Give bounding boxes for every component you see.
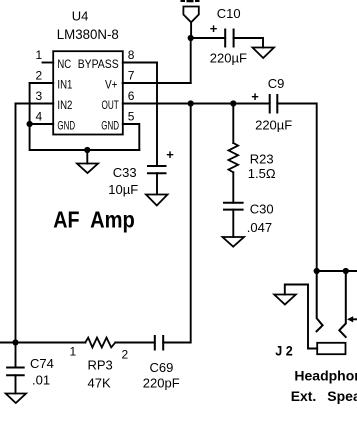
svg-text:220µF: 220µF: [210, 51, 247, 66]
capacitor C74: [7, 368, 24, 376]
node pin4 junction: [27, 121, 33, 127]
node OUT feedback junction: [188, 100, 194, 106]
pin 8 stub: [123, 62, 157, 64]
ground (C74): [6, 394, 26, 404]
wire R23 to C30: [232, 172, 234, 203]
svg-text:6: 6: [128, 89, 135, 103]
wire jack top rail: [317, 270, 357, 272]
svg-text:C33: C33: [113, 165, 137, 180]
capacitor C33: [148, 166, 166, 173]
svg-text:47K: 47K: [88, 376, 111, 391]
wire gnd stub: [86, 150, 88, 164]
svg-text:3: 3: [36, 89, 43, 103]
svg-text:GND: GND: [57, 118, 75, 132]
svg-text:1.5Ω: 1.5Ω: [248, 166, 276, 181]
wire C74 to ground: [15, 375, 17, 393]
svg-text:220µF: 220µF: [255, 117, 292, 132]
wire IN2 feedback rail: [15, 104, 17, 343]
svg-text:10µF: 10µF: [108, 182, 138, 197]
resistor RP3: [85, 338, 115, 348]
svg-text:.047: .047: [247, 220, 272, 235]
svg-text:C30: C30: [250, 202, 274, 217]
svg-text:Speaker: Speaker: [327, 388, 357, 404]
svg-text:+: +: [251, 89, 259, 104]
svg-text:R23: R23: [250, 152, 274, 167]
svg-text:AF: AF: [53, 207, 79, 233]
pin 1 stub: [43, 62, 54, 64]
wire IN1 to ground node: [29, 83, 31, 124]
svg-text:1: 1: [70, 344, 77, 358]
wire C69 to OUT: [163, 104, 191, 343]
wire C30 to ground: [232, 210, 234, 237]
resistor R23: [229, 143, 239, 172]
svg-text:5: 5: [128, 110, 135, 124]
power flag V+: [183, 7, 198, 23]
pin 6 stub / OUT wire: [123, 103, 270, 105]
svg-text:NC: NC: [57, 57, 71, 71]
ground (C10): [253, 48, 275, 59]
capacitor C69: [155, 336, 163, 350]
power net label (clipped text bottom): [181, 0, 200, 2]
ground (J2): [274, 295, 296, 305]
wire sleeve to ground: [285, 285, 317, 349]
svg-text:V+: V+: [105, 77, 118, 91]
ground (C33): [146, 195, 168, 206]
node jack tip junction: [314, 268, 320, 274]
svg-text:8: 8: [128, 48, 135, 62]
node jack ring junction: [343, 268, 349, 274]
op-amp U4 body: [53, 51, 123, 134]
pin 3 stub: [16, 103, 54, 105]
wire V+ node to pin 7: [123, 38, 191, 83]
capacitor C10: [225, 30, 233, 47]
node V+ junction: [188, 35, 194, 41]
svg-text:C10: C10: [217, 6, 241, 21]
svg-text:IN2: IN2: [57, 98, 72, 112]
wire V+ node to C10: [191, 37, 226, 39]
ground (C30): [223, 237, 245, 247]
svg-text:J 2: J 2: [275, 343, 293, 359]
jack J2 ring contact: [339, 271, 346, 337]
svg-text:C69: C69: [150, 360, 174, 375]
node gnd junction: [84, 147, 90, 153]
svg-text:Headphones: Headphones: [294, 367, 357, 383]
pin 4 stub: [30, 123, 54, 125]
svg-text:BYPASS: BYPASS: [78, 57, 119, 71]
wire RP3 to C69: [115, 342, 155, 344]
wire to left edge: [0, 342, 16, 344]
pin 2 stub: [30, 82, 54, 84]
wire OUT to R23: [232, 104, 234, 144]
wire gnd run under IC: [30, 124, 140, 150]
svg-text:220pF: 220pF: [143, 376, 180, 391]
svg-text:1: 1: [36, 48, 43, 62]
wire flag to V+ node: [190, 22, 192, 38]
svg-text:IN1: IN1: [57, 77, 72, 91]
svg-text:4: 4: [36, 110, 43, 124]
wire C9 to jack: [277, 104, 316, 272]
ground (U4): [77, 164, 98, 174]
svg-text:GND: GND: [101, 118, 119, 132]
svg-text:C74: C74: [30, 356, 54, 371]
wire C33 to ground: [156, 173, 158, 194]
node feedback junction: [12, 339, 18, 345]
svg-text:OUT: OUT: [102, 98, 120, 112]
jack switch arrow: [352, 318, 357, 320]
svg-text:7: 7: [128, 69, 135, 83]
wire junction to RP3: [16, 342, 86, 344]
svg-text:Amp: Amp: [90, 207, 135, 233]
svg-text:C9: C9: [268, 76, 285, 91]
svg-text:Ext.: Ext.: [291, 388, 317, 404]
jack J2 sleeve: [317, 343, 345, 354]
wire pin8 BYPASS to C33: [156, 63, 158, 167]
svg-text:LM380N-8: LM380N-8: [57, 27, 119, 42]
pin 7 stub: [123, 82, 191, 84]
node OUT R23 junction: [230, 100, 236, 106]
wire C10 to ground: [234, 38, 263, 48]
svg-text:U4: U4: [72, 8, 89, 23]
jack J2 tip contact: [317, 271, 323, 331]
svg-text:.01: .01: [32, 372, 50, 387]
svg-text:+: +: [210, 21, 218, 36]
svg-text:2: 2: [122, 347, 129, 361]
svg-text:+: +: [166, 147, 174, 162]
svg-text:2: 2: [36, 69, 43, 83]
svg-text:RP3: RP3: [88, 358, 113, 373]
capacitor C9: [270, 95, 278, 113]
pin 5 stub: [123, 124, 140, 150]
capacitor C30: [224, 203, 243, 210]
wire junction to C74: [15, 343, 17, 368]
